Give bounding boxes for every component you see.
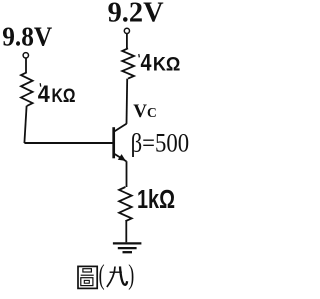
svg-text:9.8V: 9.8V xyxy=(2,20,52,51)
svg-text:β=500: β=500 xyxy=(131,128,190,157)
caption 圖(九) : character 圖 drawn as strokes xyxy=(78,266,97,288)
transistor Q1 NPN: emitter lead xyxy=(114,154,126,162)
svg-text:C: C xyxy=(147,105,157,120)
wire: 9.8V terminal to RB top xyxy=(25,58,27,72)
svg-text:9.2V: 9.2V xyxy=(108,0,164,29)
value label 4KΩ (RB) xyxy=(38,81,76,108)
wire: RB bottom down to base node xyxy=(24,106,26,143)
terminal 9.8V (open circle) xyxy=(23,53,28,58)
wire: base wire (horizontal to transistor base bar) xyxy=(24,142,113,144)
value label 4KΩ (RC) xyxy=(139,50,181,77)
resistor RE 1k ohm (emitter resistor zigzag) xyxy=(119,187,132,221)
svg-text:): ) xyxy=(128,260,134,291)
caption 圖(九) : character 九 drawn as strokes xyxy=(107,266,127,287)
resistor RC 4K ohm (collector resistor zigzag) xyxy=(122,48,134,78)
svg-text:(: ( xyxy=(99,260,105,291)
svg-text:1kΩ: 1kΩ xyxy=(137,186,175,214)
svg-text:4: 4 xyxy=(141,50,153,77)
terminal 9.2V (open circle) xyxy=(124,28,129,33)
svg-text:KΩ: KΩ xyxy=(52,86,76,107)
node label Vc xyxy=(133,101,156,122)
svg-text:KΩ: KΩ xyxy=(153,55,181,76)
transistor Q1 NPN: emitter arrow xyxy=(118,154,126,161)
svg-text:4: 4 xyxy=(38,81,51,108)
transistor Q1 NPN: collector lead xyxy=(114,124,127,132)
ground symbol xyxy=(113,243,141,252)
wire: emitter down to RE top xyxy=(126,161,128,187)
wire: RC bottom to collector xyxy=(126,79,129,124)
wire: RE bottom to ground xyxy=(125,221,127,242)
transistor Q1 NPN: base bar xyxy=(112,127,115,158)
wire: 9.2V terminal to RC top xyxy=(126,34,128,49)
svg-text:V: V xyxy=(133,101,147,122)
resistor RB 4K ohm (base resistor zigzag) xyxy=(21,72,33,106)
